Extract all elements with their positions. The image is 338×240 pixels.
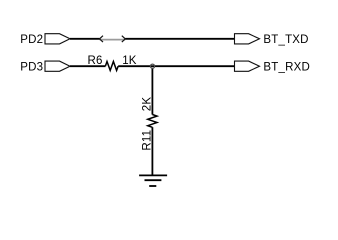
terminal BT_TXD (235, 34, 260, 44)
terminal PD2 (45, 34, 70, 44)
svg-text:R6: R6 (88, 55, 103, 67)
gray bus segment (100, 39, 126, 41)
svg-text:PD3: PD3 (20, 61, 43, 73)
resistor R6 (105, 62, 118, 71)
wire PD2 to arrow (70, 38, 100, 40)
svg-text:PD2: PD2 (20, 34, 43, 46)
terminal PD3 (45, 61, 70, 71)
arrowhead left (100, 36, 104, 42)
svg-text:BT_RXD: BT_RXD (263, 61, 310, 73)
resistor R11 (148, 115, 157, 128)
wire arrow to BT_TXD (125, 38, 234, 40)
ground (139, 175, 167, 186)
svg-text:BT_TXD: BT_TXD (263, 34, 308, 46)
terminal BT_RXD (235, 61, 260, 71)
wire R11 to ground (151, 127, 153, 175)
svg-text:2K: 2K (142, 97, 154, 112)
wire R6 to BT_RXD (118, 65, 234, 67)
wire junction to R11 (151, 68, 153, 115)
wire PD3 to R6 (70, 65, 106, 67)
arrowhead right (122, 36, 126, 42)
junction node (150, 64, 154, 68)
